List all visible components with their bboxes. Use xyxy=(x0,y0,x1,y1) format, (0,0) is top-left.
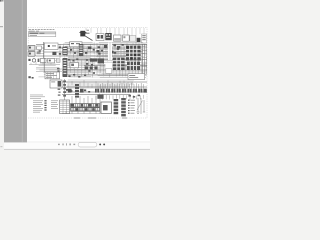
legend list right xyxy=(128,100,135,114)
zoom box xyxy=(78,142,97,147)
connector CN3 table xyxy=(45,72,60,79)
cable channel gap xyxy=(108,43,112,61)
relay K3 xyxy=(123,35,130,41)
wire mesh lower right xyxy=(97,61,147,78)
fine vertical overlay xyxy=(65,43,142,76)
wire mesh upper right xyxy=(96,43,146,59)
zoom out dot xyxy=(99,144,101,146)
comb feed wires xyxy=(72,96,96,104)
bottom toolbar xyxy=(0,142,150,150)
TB1 cell variation xyxy=(127,46,137,60)
left strip dash xyxy=(0,26,3,27)
resistor block R1 xyxy=(128,74,145,80)
junction dots band B scatter xyxy=(64,58,95,77)
wire mesh band C xyxy=(66,80,133,88)
CN4 pin ticks xyxy=(97,89,140,93)
wire verticals lower mid xyxy=(64,59,93,78)
junction cluster band C xyxy=(66,89,104,99)
left infill wires xyxy=(30,44,62,72)
wire verticals lower right xyxy=(97,60,145,77)
relay K1 xyxy=(105,33,111,40)
wire mesh left band B xyxy=(36,59,61,77)
horn H1 component chain xyxy=(28,59,60,65)
junction scatter R5 xyxy=(98,44,124,55)
window bottom border xyxy=(0,149,150,150)
wire mesh upper mid xyxy=(63,43,96,58)
ground symbols right xyxy=(137,98,146,114)
right edge ticks xyxy=(142,47,148,66)
connector CN2 striped xyxy=(79,44,83,56)
connector ladder CN5 xyxy=(114,99,119,114)
junction marks left mid xyxy=(57,68,60,72)
switch S1 cluster left xyxy=(28,46,42,57)
junction blobs mid white gap xyxy=(86,63,93,66)
spec table xyxy=(29,32,56,37)
page background xyxy=(26,0,150,150)
junction blobs band B xyxy=(85,58,104,69)
wire verticals band C xyxy=(64,80,132,89)
main wire bus C xyxy=(62,82,147,95)
connector stack CN7 xyxy=(75,84,79,98)
connector ladder CN6 xyxy=(121,98,126,116)
wire diagonal right bottom xyxy=(137,101,143,111)
page nav controls xyxy=(58,143,75,145)
sidebar scrollbar line xyxy=(22,0,23,142)
frame border dark segments xyxy=(74,117,127,120)
thumbnail sidebar xyxy=(4,0,27,142)
wire drops below band C xyxy=(96,94,144,100)
channel wire xyxy=(109,43,111,61)
junction marks below CN4 xyxy=(128,95,140,98)
terminal grid TB2 xyxy=(113,58,125,70)
wire verticals above band CN4 xyxy=(98,83,144,89)
relay K4 mid cluster xyxy=(62,47,67,56)
wire verticals upper mid xyxy=(64,42,95,57)
control unit U1 xyxy=(70,42,82,47)
ECU feed vertical xyxy=(99,99,101,114)
right edge bus xyxy=(143,44,147,74)
connector row CN4 dark band xyxy=(68,89,147,93)
ECU box U2 xyxy=(101,102,111,113)
wire verticals upper right xyxy=(97,42,145,59)
bus bar BB1 xyxy=(90,58,97,61)
left strip text specks xyxy=(0,0,3,2)
left strip lower speck xyxy=(0,146,2,147)
corner cluster bottom left xyxy=(28,76,33,78)
fine mesh overlay lower xyxy=(64,60,146,78)
connector CN1 xyxy=(130,36,141,42)
pocket box outline xyxy=(106,68,112,73)
top feed wires xyxy=(86,28,144,38)
sensor S3 marks xyxy=(58,89,61,96)
relay K2 xyxy=(114,35,121,41)
battery B1 xyxy=(79,30,92,41)
zoom in dot xyxy=(103,144,105,146)
left panel strip xyxy=(0,0,4,150)
junction blobs band A xyxy=(70,45,120,54)
schematic frame dashed border xyxy=(28,28,147,119)
ignition switch S2 xyxy=(44,42,58,58)
left bus vertical xyxy=(43,58,45,72)
junction marks left xyxy=(39,46,62,54)
note text block xyxy=(30,95,45,99)
terminal strip TS1 xyxy=(142,34,147,43)
comb output line xyxy=(62,111,100,113)
pin table PT1 xyxy=(60,100,70,114)
fuse box F1 xyxy=(96,34,104,41)
fine mesh overlay upper xyxy=(63,43,145,56)
main wire bus B xyxy=(62,60,147,76)
lamp L1 xyxy=(50,80,62,88)
white pocket above ECU xyxy=(105,63,112,74)
relay K5 striped column xyxy=(63,58,68,77)
terminal grid TB3 xyxy=(127,62,140,70)
terminal grid TB1 xyxy=(126,46,141,61)
component chain CH1 xyxy=(63,79,66,100)
legend list left xyxy=(33,100,58,112)
title text ELECTRICAL SPECIFICATIONS xyxy=(29,29,55,31)
terminal comb strip TS2 xyxy=(71,104,100,112)
wire mesh lower mid xyxy=(62,59,95,77)
main wire bus A xyxy=(36,45,147,57)
motor M1 xyxy=(70,62,78,67)
